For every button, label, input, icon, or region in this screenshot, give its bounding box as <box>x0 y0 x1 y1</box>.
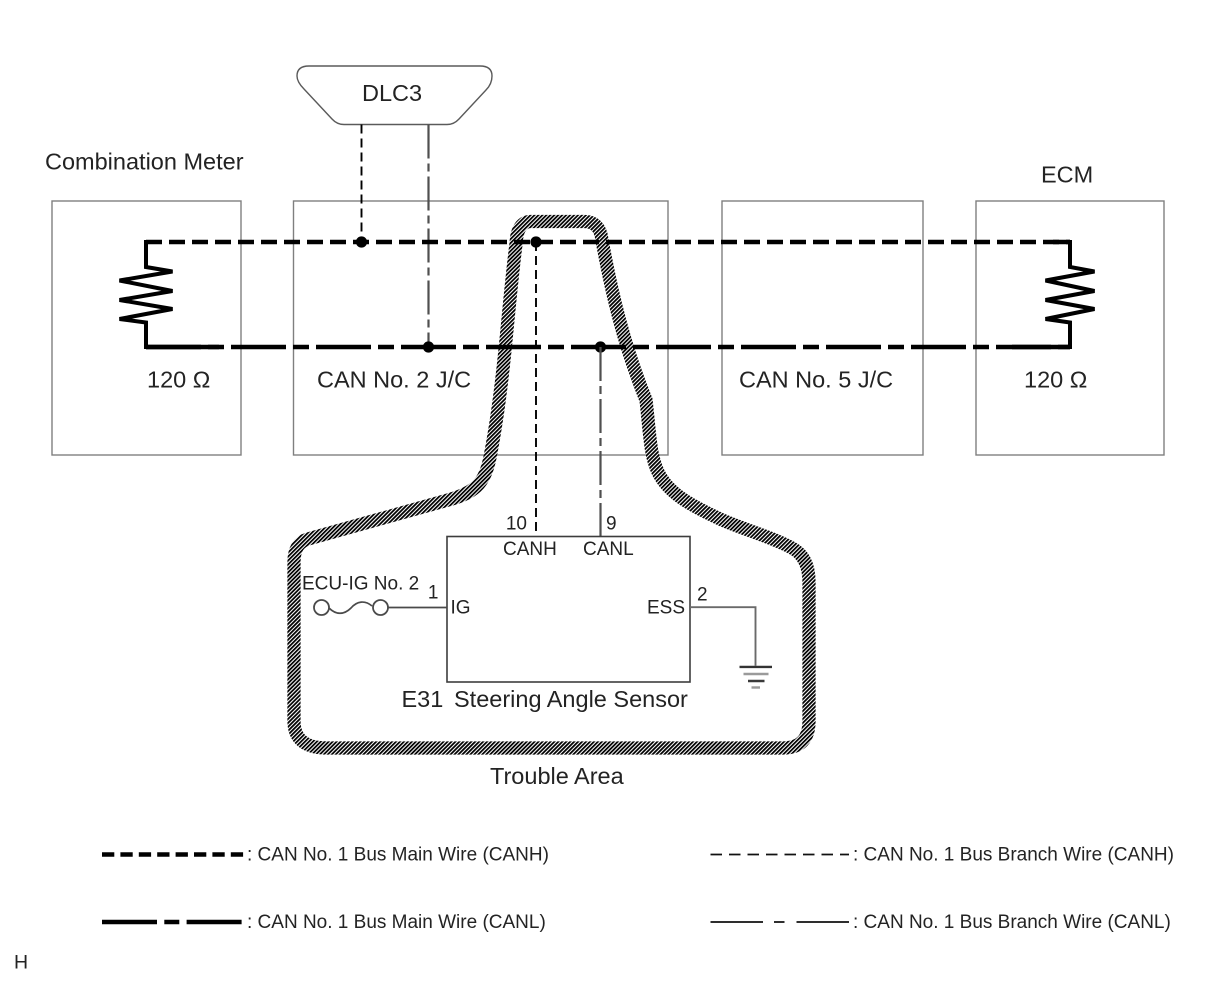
box Combination Meter <box>52 201 241 455</box>
wire CANL branch from DLC3 (dash-dot) <box>427 125 429 348</box>
legend sample CAN No.1 bus main wire CANH <box>102 852 243 856</box>
resistor 120 ohm (ECM) <box>1046 240 1095 349</box>
sensor box E31 Steering Angle Sensor <box>447 537 690 683</box>
svg-text:ESS: ESS <box>647 598 685 619</box>
fuse symbol right circle <box>373 600 388 615</box>
svg-text:1: 1 <box>428 583 439 604</box>
wire CANH branch to sensor pin 10 (dashed) <box>535 242 537 537</box>
wire ESS pin 2 to ground <box>690 607 756 666</box>
svg-text:9: 9 <box>606 514 617 535</box>
svg-text:ECM: ECM <box>1041 162 1093 188</box>
junction dot CANH / DLC3 branch <box>356 236 367 247</box>
legend sample CAN No.1 bus branch wire CANH <box>711 854 850 856</box>
box CAN No. 5 J/C <box>722 201 923 455</box>
svg-text:CANL: CANL <box>583 539 634 560</box>
svg-text:CANH: CANH <box>503 539 557 560</box>
svg-text:CAN No. 2 J/C: CAN No. 2 J/C <box>317 367 471 393</box>
svg-text:: CAN No. 1 Bus Main Wire (CAN: : CAN No. 1 Bus Main Wire (CANH) <box>247 845 549 866</box>
connector DLC3 <box>297 66 492 125</box>
svg-text:120 Ω: 120 Ω <box>1024 367 1087 393</box>
svg-text:DLC3: DLC3 <box>362 80 422 106</box>
wire CANH branch from DLC3 (dashed) <box>361 125 363 243</box>
legend sample CAN No.1 bus branch wire CANL <box>711 921 850 923</box>
svg-text:: CAN No. 1 Bus Branch Wire (C: : CAN No. 1 Bus Branch Wire (CANL) <box>853 912 1171 933</box>
svg-text:H: H <box>14 952 28 974</box>
wire CANH corner caps <box>1053 240 1070 244</box>
svg-text:CAN No. 5 J/C: CAN No. 5 J/C <box>739 367 893 393</box>
wire IG pin 1 <box>388 607 447 609</box>
wire CANL branch to sensor pin 9 (dash-dot) <box>599 347 601 537</box>
fuse symbol wavy link <box>329 602 372 613</box>
junction dot CANL / sensor branch <box>595 341 606 352</box>
svg-text:Steering Angle Sensor: Steering Angle Sensor <box>454 686 688 712</box>
box CAN No. 2 J/C <box>294 201 669 455</box>
legend sample CAN No.1 bus main wire CANL <box>102 920 242 924</box>
trouble area boundary (hatched blob) <box>294 222 809 749</box>
resistor 120 ohm (Combination Meter) <box>120 240 173 349</box>
svg-text:Combination Meter: Combination Meter <box>45 149 244 175</box>
svg-text:: CAN No. 1 Bus Branch Wire (C: : CAN No. 1 Bus Branch Wire (CANH) <box>853 845 1174 866</box>
fuse symbol left circle <box>314 600 329 615</box>
svg-text:IG: IG <box>451 598 471 619</box>
svg-text:ECU-IG No. 2: ECU-IG No. 2 <box>302 574 419 595</box>
svg-text:120 Ω: 120 Ω <box>147 367 210 393</box>
svg-text:2: 2 <box>697 585 708 606</box>
svg-text:: CAN No. 1 Bus Main Wire (CAN: : CAN No. 1 Bus Main Wire (CANL) <box>247 912 546 933</box>
svg-text:10: 10 <box>506 514 527 535</box>
svg-text:Trouble Area: Trouble Area <box>490 763 625 789</box>
wire CANH bus main (thick dashed) <box>146 240 1070 244</box>
junction dot CANL / DLC3 branch <box>423 341 434 352</box>
ground <box>740 667 773 688</box>
wire CANL corner caps <box>146 345 1070 349</box>
junction dot CANH / sensor branch <box>530 236 541 247</box>
svg-text:E31: E31 <box>402 686 444 712</box>
box ECM <box>976 201 1164 455</box>
wire CANL bus main (thick dash-dot) <box>146 345 1070 349</box>
